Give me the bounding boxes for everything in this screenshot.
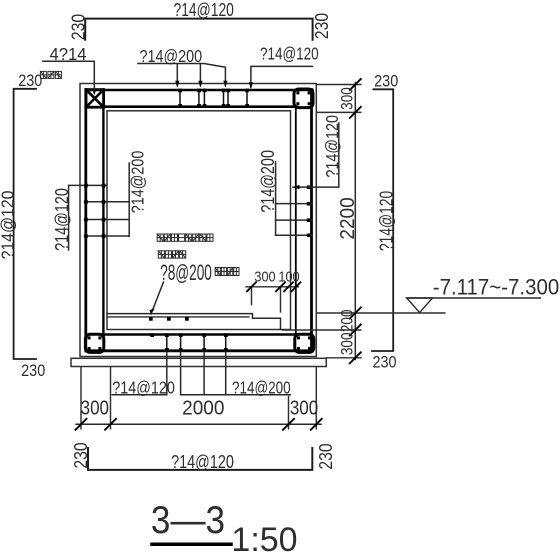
svg-text:230: 230 xyxy=(372,353,396,371)
mesh rebar line xyxy=(108,316,250,318)
secondary cast layer with step xyxy=(107,314,281,330)
title underline xyxy=(152,543,231,547)
mesh dots xyxy=(149,317,189,321)
right chain extension lines xyxy=(283,85,445,358)
svg-text:230: 230 xyxy=(67,14,89,40)
svg-text:?14@200: ?14@200 xyxy=(257,150,278,213)
bottom dimension ticks xyxy=(76,419,322,430)
top-left corner bar box with X xyxy=(86,90,104,108)
svg-text:230: 230 xyxy=(311,13,333,39)
left wall inner leader (to ?14@200 label) xyxy=(128,163,130,236)
svg-text:2000: 2000 xyxy=(182,397,224,420)
bottom-left corner stirrup xyxy=(85,334,103,352)
svg-text:2200: 2200 xyxy=(336,197,359,239)
mesh leader line xyxy=(151,282,164,314)
svg-text:?8@200: ?8@200 xyxy=(160,260,212,285)
bottom dimension extension lines xyxy=(81,368,316,429)
svg-text:300: 300 xyxy=(254,267,275,284)
right chain ticks xyxy=(350,79,361,363)
svg-text:1:50: 1:50 xyxy=(231,521,297,552)
right dimension chain line xyxy=(354,83,356,360)
svg-text:?14@120: ?14@120 xyxy=(112,378,175,398)
concrete inner face outline xyxy=(107,111,291,330)
left wall inner rebar xyxy=(102,108,104,335)
interior note line2 xyxy=(158,251,185,258)
right wall dot rows with tick lines xyxy=(276,203,312,205)
right wall inner leader (to ?14@200 label) xyxy=(275,162,277,236)
svg-text:230: 230 xyxy=(374,72,398,90)
svg-text:230: 230 xyxy=(315,443,337,469)
svg-text:300: 300 xyxy=(338,87,357,110)
svg-text:300: 300 xyxy=(290,396,318,419)
svg-text:?14@120: ?14@120 xyxy=(0,191,18,260)
top slab bar dots xyxy=(178,89,249,108)
right wall horizontal bar leader xyxy=(293,123,339,187)
right wall inner rebar xyxy=(295,108,297,335)
svg-text:300: 300 xyxy=(81,396,109,419)
corner note text xyxy=(40,71,61,78)
bottom outer bar symbol ?14@120 xyxy=(88,448,312,470)
svg-text:300: 300 xyxy=(338,332,357,355)
elevation marker xyxy=(407,297,541,299)
bottom slab vertical bars xyxy=(167,335,226,350)
svg-text:?14@200: ?14@200 xyxy=(128,151,148,214)
top slab lower rebar xyxy=(103,105,297,108)
svg-text:?14@120: ?14@120 xyxy=(260,45,319,64)
bottom dimension line xyxy=(76,423,321,425)
right outer bar symbol ?14@120 xyxy=(372,89,393,351)
left outer bar symbol ?14@120 xyxy=(14,89,36,359)
top slab upper rebar xyxy=(86,89,313,92)
bottom slab upper rebar xyxy=(103,333,297,335)
svg-text:200: 200 xyxy=(338,309,357,332)
svg-text:?14@120: ?14@120 xyxy=(51,188,72,251)
concrete outer outline xyxy=(80,84,316,357)
svg-text:230: 230 xyxy=(70,442,92,468)
svg-text:-7.117~-7.300: -7.117~-7.300 xyxy=(433,275,559,300)
svg-text:?14@120: ?14@120 xyxy=(323,115,343,178)
svg-text:100: 100 xyxy=(278,267,299,284)
interior note line1 xyxy=(157,234,213,241)
mesh note text xyxy=(215,268,239,276)
svg-text:?14@120: ?14@120 xyxy=(171,451,234,472)
left wall dot rows with tick lines xyxy=(69,184,106,186)
svg-text:?14@200: ?14@200 xyxy=(232,379,291,398)
right wall outer rebar xyxy=(310,90,313,352)
top outer bar symbol ?14@120 xyxy=(85,19,312,40)
svg-text:?14@120: ?14@120 xyxy=(377,191,397,251)
bottom slab dowel bars label ?14@200 xyxy=(181,352,291,395)
left wall outer bar label ?14@120 xyxy=(68,185,70,250)
bottom-right corner stirrup xyxy=(295,334,314,352)
svg-text:3—3: 3—3 xyxy=(151,497,225,541)
left wall outer rebar xyxy=(84,90,87,352)
top-right corner stirrup xyxy=(294,89,313,108)
bottom slab bar dots xyxy=(150,333,227,351)
svg-text:230: 230 xyxy=(18,72,42,90)
bottom slab bottom bars label ?14@120 xyxy=(112,352,167,395)
blinding layer under bottom slab xyxy=(71,358,326,366)
top slab vertical bars xyxy=(180,91,247,107)
svg-text:?14@120: ?14@120 xyxy=(174,0,234,20)
bottom slab lower rebar xyxy=(86,349,313,352)
step mini dimension xyxy=(246,287,299,312)
svg-text:230: 230 xyxy=(21,362,45,380)
